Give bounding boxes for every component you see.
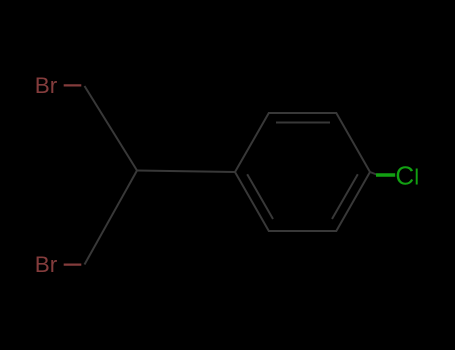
double bond inner line (lower-right edge)	[332, 174, 358, 219]
bond CH2-C diagonal (bottom)	[85, 171, 138, 265]
bond C-Br (bottom)	[64, 264, 82, 266]
bond C-Cl (green half)	[376, 173, 395, 176]
svg-text:Br: Br	[35, 73, 58, 98]
bond stub ring-to-Cl (gray half)	[370, 172, 377, 175]
bond C-Br (top)	[64, 84, 82, 86]
svg-text:C: C	[395, 160, 414, 190]
svg-text:l: l	[414, 164, 419, 189]
bond CH2-C diagonal (top)	[85, 86, 138, 171]
bond C-ring	[137, 171, 235, 173]
double bond inner line (top edge)	[276, 122, 330, 124]
double bond inner line (lower-left edge)	[247, 174, 273, 219]
svg-text:Br: Br	[35, 252, 58, 277]
benzene ring outline	[235, 113, 370, 231]
